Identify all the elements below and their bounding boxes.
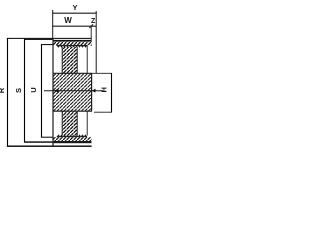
svg-text:Z: Z	[91, 18, 96, 25]
svg-text:U: U	[29, 87, 38, 92]
svg-text:Y: Y	[72, 3, 77, 12]
svg-text:R: R	[0, 87, 6, 93]
svg-text:H: H	[100, 87, 109, 92]
svg-text:S: S	[14, 88, 23, 93]
svg-text:W: W	[64, 16, 72, 25]
